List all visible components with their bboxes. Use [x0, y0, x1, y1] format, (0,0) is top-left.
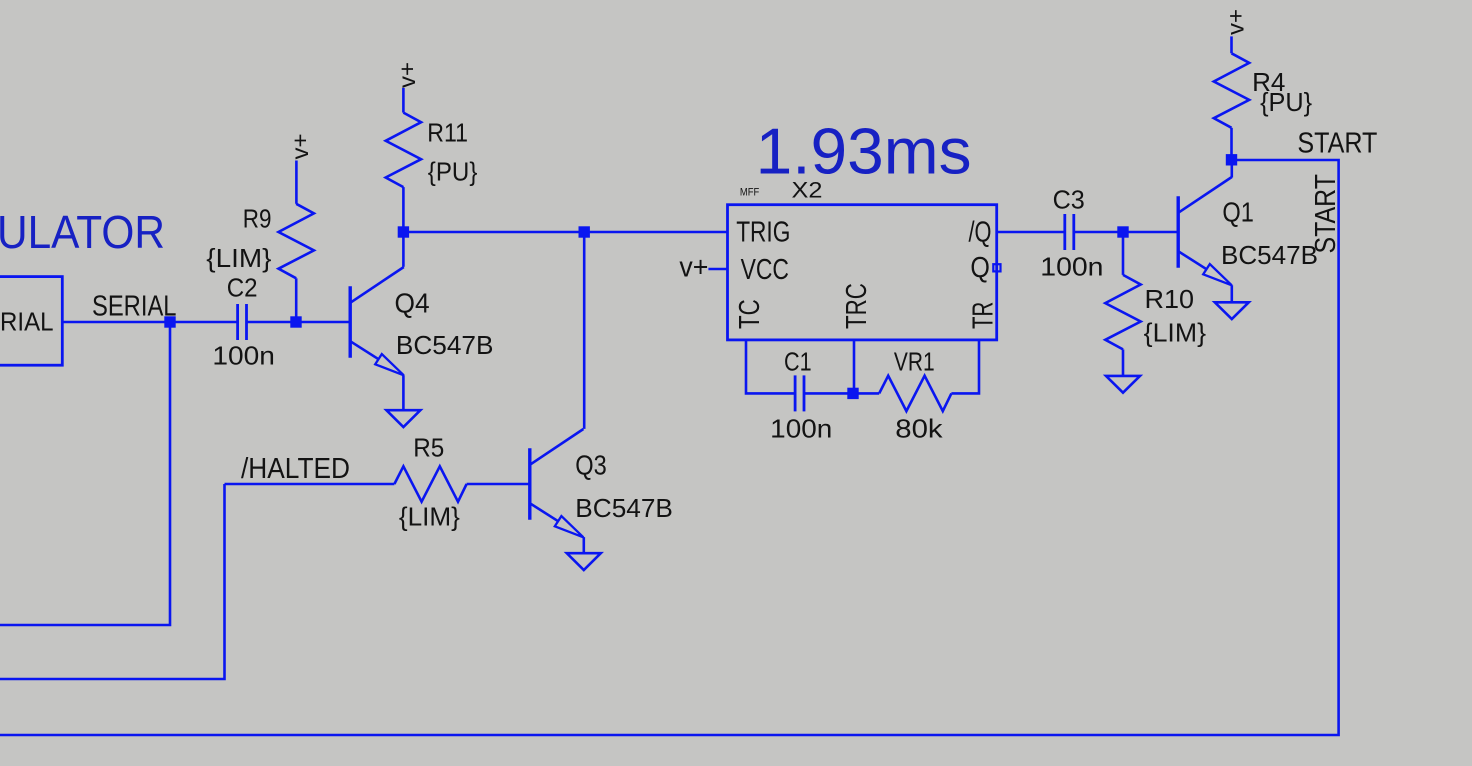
- svg-text:START: START: [1297, 127, 1377, 159]
- svg-text:C2: C2: [227, 275, 258, 303]
- svg-text:100n: 100n: [212, 343, 275, 371]
- svg-text:TR: TR: [967, 302, 999, 329]
- svg-text:/Q: /Q: [969, 217, 992, 249]
- svg-text:TRIG: TRIG: [736, 217, 790, 249]
- svg-text:v+: v+: [394, 62, 420, 88]
- svg-text:100n: 100n: [1040, 254, 1103, 282]
- svg-text:VR1: VR1: [894, 348, 935, 376]
- svg-text:/HALTED: /HALTED: [241, 453, 350, 485]
- svg-text:1.93ms: 1.93ms: [756, 115, 972, 188]
- svg-text:SERIAL: SERIAL: [92, 291, 177, 323]
- svg-text:BC547B: BC547B: [396, 332, 494, 360]
- svg-text:R11: R11: [427, 119, 468, 147]
- svg-text:Q4: Q4: [395, 288, 430, 319]
- svg-text:X2: X2: [792, 177, 823, 202]
- svg-text:{PU}: {PU}: [428, 159, 478, 187]
- svg-text:Q: Q: [970, 252, 990, 284]
- svg-text:BC547B: BC547B: [1221, 242, 1318, 270]
- svg-text:{PU}: {PU}: [1260, 89, 1312, 117]
- svg-text:{LIM}: {LIM}: [399, 504, 460, 532]
- svg-text:VCC: VCC: [741, 254, 789, 286]
- svg-text:{LIM}: {LIM}: [206, 245, 272, 273]
- svg-text:Q3: Q3: [575, 450, 607, 481]
- svg-text:C3: C3: [1053, 187, 1085, 215]
- svg-text:ULATOR: ULATOR: [0, 206, 165, 258]
- svg-text:R10: R10: [1145, 286, 1195, 314]
- svg-text:100n: 100n: [770, 415, 832, 443]
- svg-text:v+: v+: [679, 252, 708, 284]
- svg-text:{LIM}: {LIM}: [1144, 320, 1207, 348]
- svg-text:RIAL: RIAL: [0, 308, 54, 336]
- svg-text:R9: R9: [243, 205, 272, 233]
- svg-text:Q1: Q1: [1222, 197, 1254, 228]
- svg-text:80k: 80k: [895, 415, 942, 443]
- svg-text:v+: v+: [1222, 9, 1248, 35]
- svg-text:R5: R5: [413, 435, 444, 463]
- svg-text:TC: TC: [734, 299, 766, 329]
- svg-text:C1: C1: [784, 348, 812, 376]
- svg-text:TRC: TRC: [841, 283, 873, 329]
- svg-text:BC547B: BC547B: [575, 495, 673, 523]
- svg-text:MFF: MFF: [740, 186, 760, 198]
- svg-text:v+: v+: [287, 134, 313, 160]
